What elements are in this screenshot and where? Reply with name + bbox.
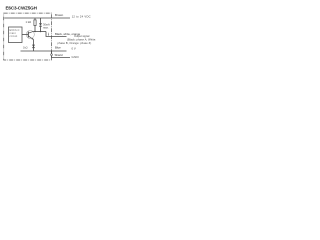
svg-text:1 kΩ: 1 kΩ	[26, 20, 32, 24]
wire: output jog	[46, 32, 67, 37]
svg-text:(Black: phase A, White:: (Black: phase A, White:	[67, 37, 96, 41]
svg-text:circuit: circuit	[10, 35, 18, 38]
wire: +V top rail	[4, 17, 70, 19]
wire: 0V bottom rail	[21, 50, 67, 52]
resistor R1 1 kOhm	[34, 18, 36, 20]
main circuit box	[9, 27, 23, 43]
wire: emitter down	[33, 40, 35, 52]
svg-text:12 to 24 VDC: 12 to 24 VDC	[72, 14, 91, 18]
svg-text:Shield: Shield	[55, 53, 63, 57]
svg-text:GND: GND	[72, 55, 80, 59]
connector dot	[51, 54, 53, 56]
svg-text:Blue: Blue	[55, 45, 61, 49]
svg-text:E6C3-CWZ5GH: E6C3-CWZ5GH	[6, 6, 38, 11]
svg-text:Brown: Brown	[55, 13, 64, 17]
current arrow	[48, 33, 50, 36]
node junction D1	[40, 31, 41, 32]
transistor Q1	[26, 30, 34, 38]
svg-text:phase B, Orange: phase Z): phase B, Orange: phase Z)	[58, 41, 92, 45]
svg-text:1kΩ: 1kΩ	[23, 46, 28, 49]
svg-text:0 V: 0 V	[72, 47, 76, 51]
encoder enclosure (chain-line box)	[4, 13, 52, 60]
node junction R1	[34, 31, 35, 32]
wire: shield	[52, 51, 71, 57]
svg-text:max.: max.	[43, 27, 49, 30]
diode D1	[40, 18, 42, 23]
wire: collector node line	[34, 31, 47, 33]
diode D2	[32, 45, 35, 48]
